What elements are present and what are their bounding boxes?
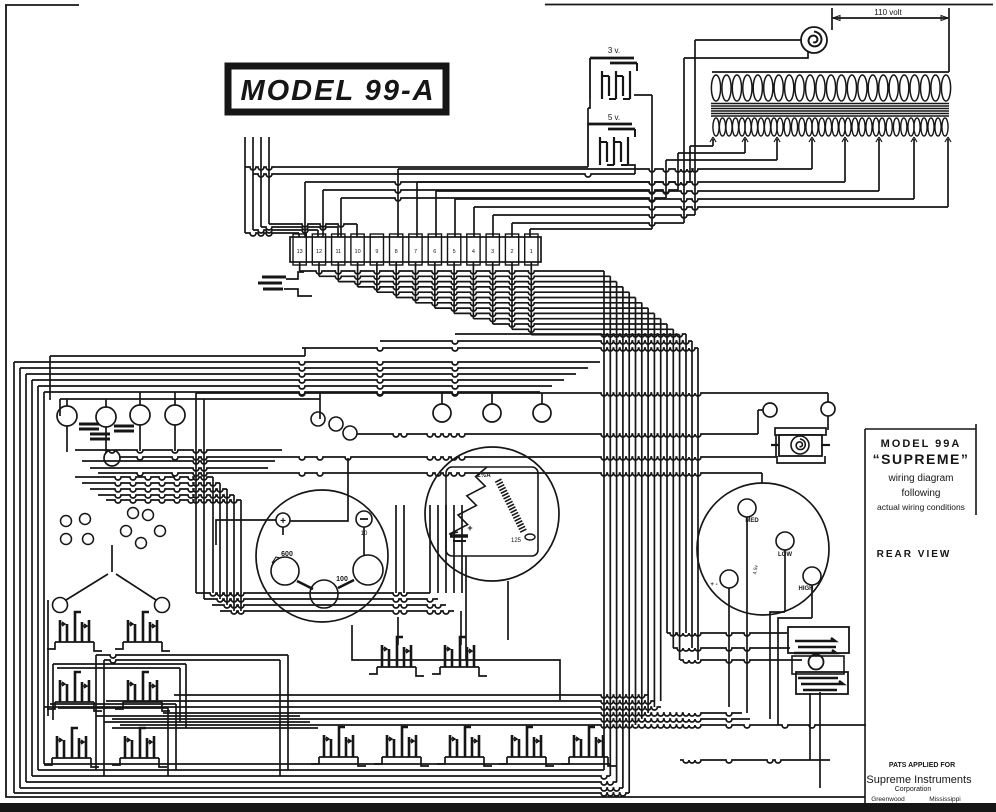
label box MODEL 99A SUPREME [865,424,976,803]
svg-text:Supreme Instruments: Supreme Instruments [866,774,972,786]
chassis panel edge wire [196,393,828,402]
wires to phone jack [667,633,802,663]
svg-text:10: 10 [355,249,361,255]
wire fan from terminal strip to right bundle [300,262,680,335]
left bus wires [50,348,320,419]
svg-text:4: 4 [472,249,475,255]
svg-text:actual wiring conditions: actual wiring conditions [877,502,965,512]
svg-text:5 v.: 5 v. [608,113,620,122]
plug P1 line cord receptacle [801,27,827,53]
svg-text:6: 6 [433,249,436,255]
phone jack J1 [788,627,849,694]
wires below rheostat R1 [466,556,508,660]
svg-text:MODEL 99A: MODEL 99A [881,438,962,450]
wires from plug into harness [684,40,808,223]
svg-text:PATS APPLIED FOR: PATS APPLIED FOR [889,762,955,769]
switch contact cluster S11 [437,727,492,766]
svg-text:600: 600 [281,551,293,558]
switch contact cluster S2 [115,612,170,651]
switch contact cluster S6 [112,728,167,767]
svg-text:110 volt: 110 volt [874,8,902,17]
switch contact cluster S8 [432,637,487,676]
svg-text:Greenwood: Greenwood [871,796,905,803]
svg-text:+: + [280,516,286,527]
terminal strip TS1 13 terminals [290,234,541,265]
battery symbol B1 [258,272,312,296]
svg-text:2: 2 [510,249,513,255]
svg-text:2½A: 2½A [477,471,491,479]
left middle wiring [75,393,462,611]
transformer T1 tap arrows [710,137,951,142]
switch contact cluster S13 [561,727,616,766]
switch contact cluster S1 [47,612,102,651]
wire to rheostat R2 D [98,473,762,483]
wire group at top-left of terminal strip [245,137,357,237]
switch contact cluster S4 [115,672,170,711]
svg-text:8: 8 [395,249,398,255]
terminal circle small [104,450,120,466]
svg-text:5: 5 [453,249,456,255]
wires across to phone jack bundle [302,334,698,660]
middle lower bus wires [196,593,560,700]
ballast resistor 5V [588,124,635,165]
svg-text:3: 3 [491,249,494,255]
svg-text:11: 11 [335,249,341,255]
pilot lamp PL1 [771,428,830,463]
small terminal lugs [61,508,166,549]
terminal circles row [57,392,551,453]
transformer T1 secondary winding [713,118,948,136]
svg-text:Mississippi: Mississippi [929,796,960,803]
transformer T1 core laminations [711,104,949,117]
switch contact cluster S12 [499,727,554,766]
transformer T1 primary winding [711,75,950,101]
svg-text:MODEL 99-A: MODEL 99-A [240,75,435,107]
bottom bus wires [14,692,866,796]
svg-text:wiring diagram: wiring diagram [887,473,953,484]
ballast resistor 3V [590,58,637,99]
svg-text:7: 7 [414,249,417,255]
svg-text:Corporation: Corporation [895,786,932,793]
svg-text:“SUPREME”: “SUPREME” [873,451,970,467]
battery block B1 [216,458,388,622]
switch contact cluster S9 [311,727,366,766]
switch contact cluster S7 [369,637,424,676]
nested frame wires on left [14,362,610,793]
rheostat R1 with resistor and slider [425,447,559,581]
selector Y wires and lugs [53,545,170,613]
switch contact cluster S5 [44,728,99,767]
ballast resistor 3V label [608,46,620,55]
wire from right circle to pilot lamp [827,416,829,430]
svg-text:12: 12 [316,249,322,255]
svg-text:1: 1 [530,249,533,255]
capacitors C1 C2 C3 [79,424,134,439]
wires of 5V ballast [245,165,635,177]
switch contact cluster S3 [47,672,102,711]
wire to right circle B [357,434,758,437]
wire to pilot lamp C [120,432,776,460]
right vertical wire bundle [604,271,680,793]
svg-text:13: 13 [297,249,303,255]
ballast resistor 5V label [608,113,620,122]
title box MODEL 99-A [228,66,446,112]
svg-text:following: following [902,488,941,499]
right terminal circles [758,402,835,434]
corporation text block [866,762,972,803]
svg-text:100: 100 [336,576,348,583]
svg-text:+: + [467,523,472,533]
rheostat R2 rear view [697,483,829,725]
switch contact cluster S10 [374,727,429,766]
dimension label 110 volt [832,8,949,72]
svg-text:3 v.: 3 v. [608,46,620,55]
svg-text:REAR VIEW: REAR VIEW [877,549,952,560]
svg-text:125: 125 [511,538,522,544]
wires of 3V ballast [588,95,652,229]
transformer T1 primary lead [712,71,949,73]
cluster tie wires [48,600,461,776]
svg-text:9: 9 [375,249,378,255]
svg-text:+ -: + - [710,582,717,588]
wire bundle from transformer taps to terminal strip [305,139,948,237]
